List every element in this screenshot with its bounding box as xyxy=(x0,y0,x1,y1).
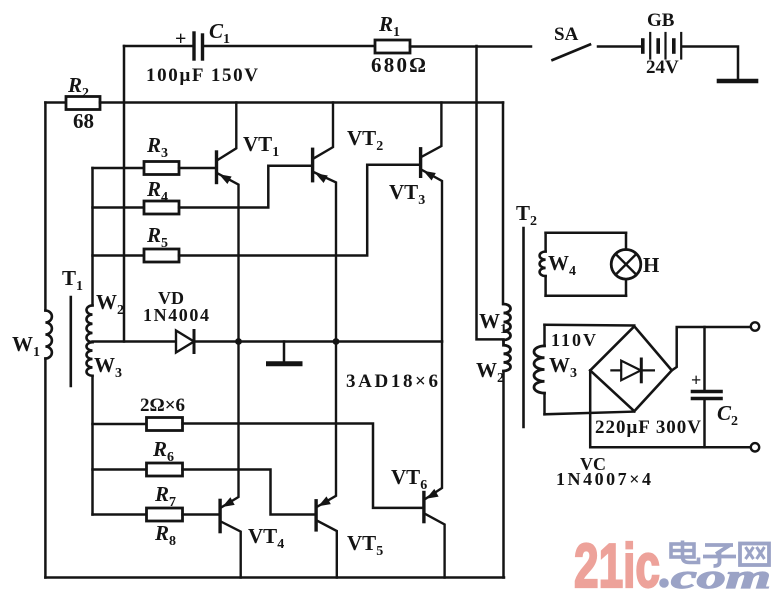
winding W1 of T2 xyxy=(504,304,511,340)
svg-text:21ic: 21ic xyxy=(574,532,660,590)
wire supply vertical x476 to T2 center tap xyxy=(477,46,504,339)
wire C1 to R1 xyxy=(204,45,375,48)
terminal output + xyxy=(751,322,759,330)
wire battery to ground corner xyxy=(682,47,738,81)
wire DC- from bridge to terminal xyxy=(590,370,751,447)
wire bottom rail xyxy=(45,576,504,579)
ground right xyxy=(719,79,756,84)
watermark zi glyph xyxy=(703,545,736,566)
wire tap bus right of diode xyxy=(194,340,442,343)
watermark 21ic xyxy=(574,532,771,590)
switch SA blade xyxy=(553,45,591,61)
bridge rectifier VC xyxy=(590,326,672,411)
svg-text:3AD18×6: 3AD18×6 xyxy=(346,371,438,392)
winding W4 loop with lamp xyxy=(540,233,626,296)
wire W2 bottom to bottom rail xyxy=(502,371,505,578)
wire collector bus y102 xyxy=(100,101,503,104)
svg-text:1N4004: 1N4004 xyxy=(143,305,209,325)
core of transformer T1 xyxy=(70,297,73,386)
wire left rail stub to R2 xyxy=(45,101,66,104)
svg-text:H: H xyxy=(643,253,659,277)
transistor VT5 xyxy=(316,342,337,578)
resistor R4 row xyxy=(93,206,145,209)
capacitor C2 xyxy=(693,327,722,447)
wire R1 to switch SA xyxy=(410,45,531,48)
diode VD xyxy=(176,331,194,353)
core of transformer T2 xyxy=(522,228,525,427)
resistor R5 row xyxy=(93,254,145,257)
wire bus corner down to T2 winding W1 xyxy=(502,103,505,305)
svg-text:2Ω×6: 2Ω×6 xyxy=(140,395,185,416)
terminal output - xyxy=(751,443,759,451)
winding W3 loop of T2 xyxy=(534,325,634,415)
resistor R1 body xyxy=(375,40,410,53)
svg-text:110V: 110V xyxy=(551,330,596,350)
transistor VT3 xyxy=(421,103,442,342)
resistor R3 row xyxy=(93,167,145,170)
watermark wang glyph xyxy=(740,544,769,566)
svg-text:24V: 24V xyxy=(646,57,679,78)
battery GB plates xyxy=(643,33,681,59)
wire SA to battery xyxy=(598,45,642,48)
wire left rail lower xyxy=(44,359,47,578)
wire feedback line lower (W3 to 2ohm/R6/R7) xyxy=(91,376,94,515)
svg-text:220μF 300V: 220μF 300V xyxy=(595,417,701,438)
svg-text:GB: GB xyxy=(647,10,675,31)
resistor 2ohmx6 row xyxy=(93,423,147,426)
resistor R6 row xyxy=(93,468,147,471)
resistor R7 row xyxy=(93,513,147,516)
lamp H xyxy=(611,249,641,279)
node tap bus: wire W2W3 tap to diode xyxy=(93,340,177,343)
wire top rail left segment xyxy=(124,45,193,48)
wire left rail upper xyxy=(44,103,47,311)
svg-text:68: 68 xyxy=(73,109,94,133)
wire feedback line upper (R3/R4/R5 to W2) xyxy=(91,168,94,305)
transistor VT1 xyxy=(217,103,239,342)
transistor VT4 xyxy=(220,342,241,578)
winding W2 of T1 xyxy=(86,305,92,342)
node junction VT2/VT5 emitters xyxy=(333,338,340,345)
svg-text:+: + xyxy=(175,28,186,50)
svg-text:100μF 150V: 100μF 150V xyxy=(146,65,258,86)
svg-text:SA: SA xyxy=(554,24,579,45)
capacitor C1 plates xyxy=(194,33,203,59)
winding W2 of T2 xyxy=(504,340,511,371)
svg-text:+: + xyxy=(691,370,701,390)
winding W3 of T1 xyxy=(87,342,93,376)
svg-text:680Ω: 680Ω xyxy=(371,53,426,77)
svg-text:1N4007×4: 1N4007×4 xyxy=(556,469,651,489)
resistor R2 body xyxy=(66,97,100,110)
wire DC+ from bridge to terminal xyxy=(672,327,751,370)
wire C1 branch vertical x124 xyxy=(123,46,126,342)
watermark dian glyph xyxy=(671,541,699,563)
transistor VT6 xyxy=(424,342,445,578)
node junction VT1/VT4 emitters xyxy=(235,338,242,345)
watermark dot xyxy=(659,578,669,588)
transistor VT2 xyxy=(313,103,336,342)
ground center xyxy=(269,342,301,364)
winding W1 of T1 xyxy=(45,311,52,359)
